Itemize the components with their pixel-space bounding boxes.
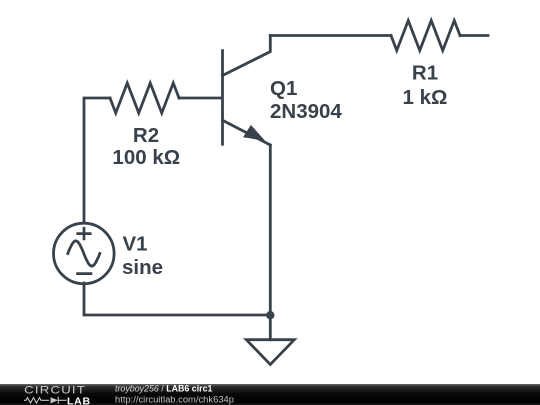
CircuitLab logo resistor-diode glyph bbox=[24, 397, 67, 404]
transistor Q1 base bar bbox=[221, 51, 224, 145]
V1 minus sign bbox=[76, 272, 92, 275]
voltage source V1 circle bbox=[54, 223, 115, 284]
wire collector to R1 bbox=[270, 34, 391, 37]
svg-text:sine: sine bbox=[122, 256, 163, 279]
svg-text:R1: R1 bbox=[412, 62, 438, 85]
wire ground stub bbox=[269, 315, 272, 340]
ground symbol bbox=[246, 340, 294, 365]
resistor R1 bbox=[391, 21, 460, 51]
wire R2 to base bbox=[179, 97, 221, 100]
wire R1 output open end bbox=[460, 34, 488, 37]
svg-text:R2: R2 bbox=[133, 124, 159, 147]
svg-text:1 kΩ: 1 kΩ bbox=[403, 86, 448, 109]
junction node bbox=[266, 311, 274, 319]
svg-text:CIRCUIT: CIRCUIT bbox=[24, 384, 86, 397]
transistor Q1 collector lead bbox=[223, 36, 271, 76]
svg-text:troyboy256 / LAB6 circ1: troyboy256 / LAB6 circ1 bbox=[115, 383, 213, 394]
svg-text:http://circuitlab.com/chk634p: http://circuitlab.com/chk634p bbox=[115, 394, 234, 405]
transistor Q1 emitter lead bbox=[223, 120, 271, 145]
resistor R2 bbox=[110, 83, 179, 113]
wire base-left: R2 lead and vertical down to V1 plus terminal bbox=[84, 98, 110, 223]
svg-text:2N3904: 2N3904 bbox=[270, 100, 342, 123]
V1 plus sign bbox=[76, 227, 91, 240]
wire emitter down bbox=[269, 145, 272, 315]
transistor Q1 emitter arrowhead bbox=[243, 125, 266, 141]
svg-text:LAB: LAB bbox=[67, 396, 91, 405]
svg-text:Q1: Q1 bbox=[270, 77, 297, 100]
svg-text:V1: V1 bbox=[123, 232, 148, 255]
wire V1 minus to bottom rail bbox=[84, 283, 270, 315]
V1 sine symbol bbox=[68, 241, 100, 266]
svg-text:100 kΩ: 100 kΩ bbox=[112, 146, 180, 169]
